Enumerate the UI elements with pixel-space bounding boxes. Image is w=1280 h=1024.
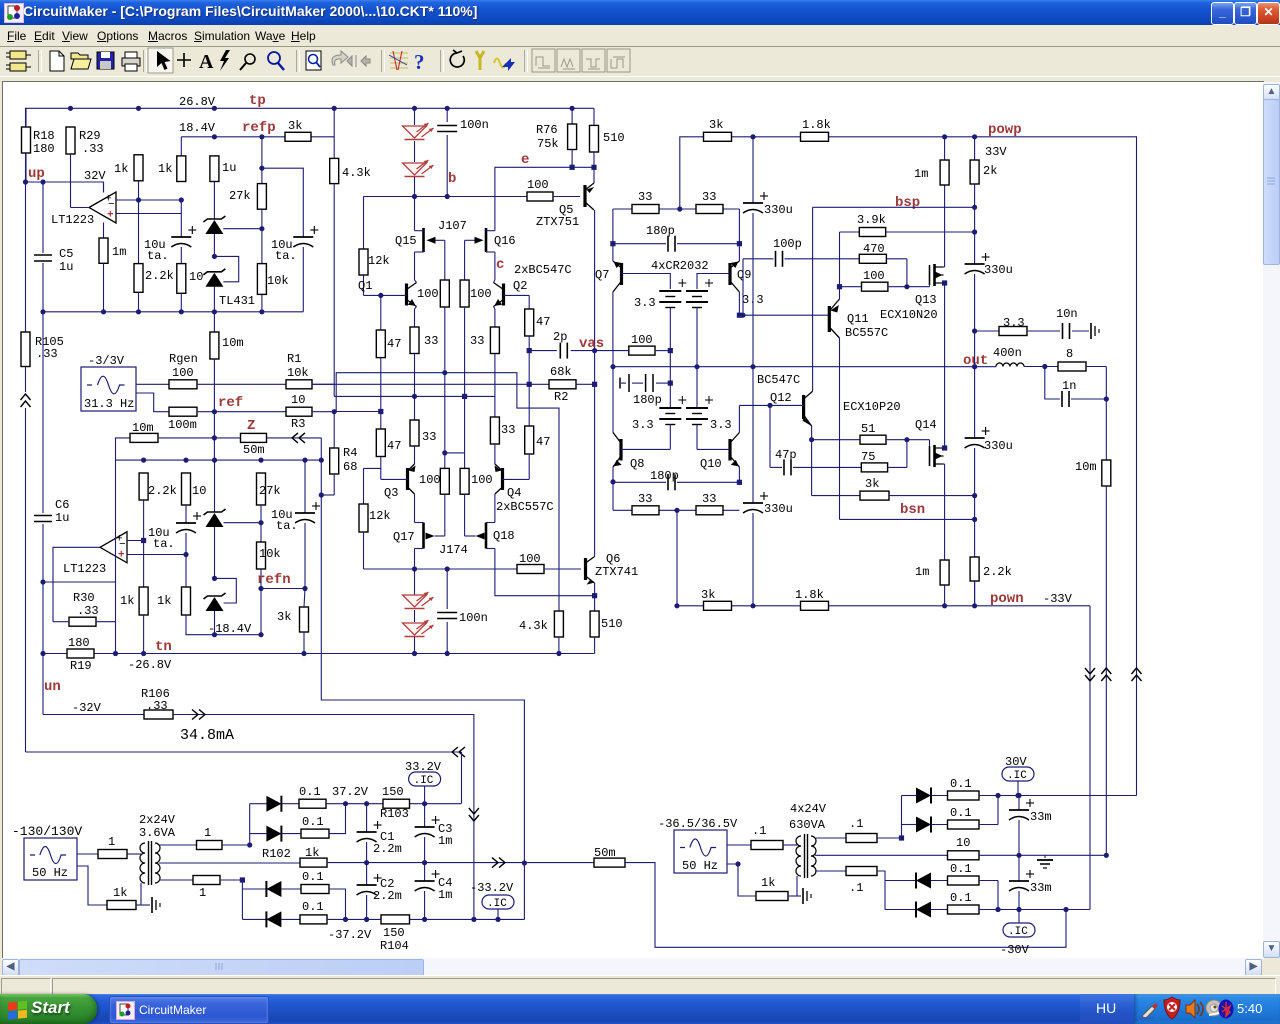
- svg-text:C5: C5: [59, 247, 73, 261]
- resistor 10 supply: [948, 851, 980, 860]
- wire 50m row: [524, 862, 594, 864]
- wire Q9 base: [697, 274, 730, 290]
- svg-text:Q14: Q14: [915, 418, 937, 432]
- wire 1u to zener: [213, 182, 215, 220]
- resistor 1.8k top: [801, 132, 829, 141]
- capacitor 330u 2: [965, 263, 985, 265]
- svg-text:100: 100: [471, 473, 493, 487]
- wire gate mid join: [445, 452, 465, 454]
- resistor 510 2: [590, 611, 599, 637]
- wire sec2 bottom: [815, 870, 846, 872]
- svg-text:100: 100: [519, 552, 541, 566]
- resistor 47 1: [380, 295, 382, 330]
- resistor 1m 2: [940, 560, 949, 585]
- transistor Q8: [619, 439, 622, 461]
- transistor Q4: [501, 468, 504, 490]
- ground right supply: [802, 888, 804, 904]
- svg-text:150: 150: [382, 785, 404, 799]
- resistor 0.1 b: [281, 833, 301, 835]
- svg-text:150: 150: [383, 926, 405, 940]
- pressed arrow button: [148, 48, 173, 73]
- svg-text:Q12: Q12: [770, 391, 792, 405]
- svg-text:Q6: Q6: [606, 552, 620, 566]
- resistor 0.1 g: [931, 880, 948, 882]
- rotate: [450, 50, 464, 67]
- capacitor C6 1u: [42, 312, 44, 513]
- svg-text:10m: 10m: [1075, 460, 1097, 474]
- wire top right rail: [680, 137, 1137, 796]
- wire Q12 emitter col: [811, 426, 813, 496]
- svg-text:+: +: [107, 210, 114, 222]
- svg-text:Q13: Q13: [915, 293, 937, 307]
- svg-text:33: 33: [638, 190, 652, 204]
- svg-text:33: 33: [702, 492, 716, 506]
- diode D7: [266, 881, 281, 897]
- wire sec2 top: [815, 837, 846, 839]
- wire vas right: [571, 350, 629, 352]
- svg-text:c: c: [496, 257, 504, 273]
- wire sec bottom right: [220, 880, 242, 919]
- capacitor 180p 2 series: [619, 378, 621, 389]
- wire Q2 emitter: [494, 307, 495, 310]
- svg-text:ta.: ta.: [147, 249, 169, 263]
- svg-text:Q8: Q8: [630, 457, 644, 471]
- svg-text:50 Hz: 50 Hz: [32, 866, 68, 880]
- svg-text:-36.5/36.5V: -36.5/36.5V: [658, 817, 738, 831]
- transistor Q9: [728, 263, 731, 285]
- svg-text:powp: powp: [988, 122, 1022, 138]
- wire src1 bottom: [77, 866, 107, 905]
- svg-text:.1: .1: [849, 881, 863, 895]
- wire to xfmr1: [127, 853, 141, 855]
- wire q7 emitter col: [612, 209, 614, 261]
- resistor 0.1 d: [281, 918, 300, 920]
- speaker2: [1206, 1000, 1222, 1016]
- capacitor 33m 2: [1018, 855, 1020, 881]
- wire 10k2 bottom: [260, 589, 262, 635]
- wire R1 R2 row: [312, 383, 549, 385]
- wire ref row: [197, 411, 286, 413]
- resistor 510: [590, 125, 599, 152]
- svg-text:2p: 2p: [553, 330, 567, 344]
- wire sec2 center: [815, 854, 948, 856]
- svg-text:50m: 50m: [594, 846, 616, 860]
- wire ind right: [1024, 366, 1058, 368]
- resistor R1 10k: [286, 380, 312, 389]
- wire bsp row: [813, 206, 975, 208]
- svg-text:e: e: [521, 152, 529, 168]
- capacitor C3 1m: [424, 804, 426, 827]
- wire ref row right: [334, 411, 381, 413]
- mosfet Q14 ECX10P20: [929, 446, 931, 466]
- resistor 1u: [210, 156, 219, 182]
- svg-text:1u: 1u: [55, 511, 69, 525]
- svg-text:-33.2V: -33.2V: [470, 881, 514, 895]
- capacitor 180p 1: [613, 243, 666, 245]
- resistor 12k 2: [363, 468, 365, 504]
- svg-text:0.1: 0.1: [302, 870, 324, 884]
- transformer T2 4x24V: [796, 836, 801, 876]
- zoom: [268, 52, 280, 64]
- capacitor 100p: [742, 259, 744, 315]
- wire un row: [42, 654, 44, 715]
- svg-text:Q10: Q10: [700, 457, 722, 471]
- chevron up connector: [25, 367, 27, 393]
- resistor 1k: [134, 155, 143, 181]
- resistor 3k: [285, 132, 311, 141]
- resistor 47 3: [380, 412, 382, 430]
- svg-text:100: 100: [527, 178, 549, 192]
- speaker: [1186, 1000, 1203, 1018]
- svg-text:J107: J107: [438, 219, 467, 233]
- wire refn stub: [321, 494, 334, 496]
- svg-text:10k: 10k: [267, 274, 289, 288]
- resistor 33 1: [410, 327, 419, 354]
- svg-text:3k: 3k: [277, 610, 291, 624]
- svg-text:27k: 27k: [259, 484, 281, 498]
- svg-text:Q3: Q3: [384, 486, 398, 500]
- source -36.5/36.5V: [674, 830, 727, 873]
- capacitor 10n: [1027, 330, 1060, 332]
- svg-text:1: 1: [108, 835, 115, 849]
- transistor Q18 J174: [485, 523, 488, 549]
- transistor Q5 ZTX751: [553, 196, 580, 198]
- svg-text:Rgen: Rgen: [169, 352, 198, 366]
- battery B3 3.3: [659, 407, 681, 409]
- svg-text:10: 10: [291, 393, 305, 407]
- resistor 68k R2: [549, 380, 576, 389]
- svg-text:4xCR2032: 4xCR2032: [651, 259, 709, 273]
- svg-text:4.3k: 4.3k: [342, 166, 371, 180]
- plus: [177, 53, 191, 67]
- wire bsp corner: [812, 207, 814, 391]
- svg-text:2xBC557C: 2xBC557C: [496, 500, 554, 514]
- wire src2 top: [727, 844, 751, 846]
- oval .IC 2: [482, 895, 514, 909]
- wire diode feed top: [249, 804, 251, 845]
- svg-text:27k: 27k: [229, 189, 251, 203]
- oval .IC 4: [1018, 910, 1020, 924]
- diode D9: [916, 788, 931, 804]
- resistor 1.8k bottom: [801, 601, 829, 610]
- svg-text:1.8k: 1.8k: [795, 588, 824, 602]
- svg-text:4.3k: 4.3k: [519, 619, 548, 633]
- resistor 0.1 a: [281, 803, 299, 805]
- print: [122, 58, 140, 66]
- battery B2 3.3: [686, 290, 708, 292]
- lightning: [220, 50, 230, 71]
- wire Q10 base: [697, 448, 730, 450]
- svg-text:R30: R30: [73, 591, 95, 605]
- wire tn rail: [43, 653, 595, 655]
- resistor 3.3: [975, 330, 999, 332]
- svg-text:33: 33: [501, 423, 515, 437]
- resistor 10m 2: [1102, 460, 1111, 486]
- svg-text:.IC: .IC: [487, 898, 507, 910]
- svg-text:.1: .1: [849, 817, 863, 831]
- resistor 1k l: [107, 901, 136, 910]
- transistor Q10: [728, 439, 731, 461]
- svg-text:1k: 1k: [157, 594, 171, 608]
- wire bat3 top: [669, 351, 671, 384]
- svg-text:1m: 1m: [915, 565, 929, 579]
- wire Q1 emitter: [415, 307, 417, 310]
- resistor 100 Q6 base: [517, 565, 544, 574]
- resistor 12k: [359, 249, 368, 275]
- wire opamp2 inputs: [127, 540, 144, 542]
- svg-text:33: 33: [422, 430, 436, 444]
- svg-text:refn: refn: [257, 572, 291, 588]
- resistor R105: [25, 182, 27, 332]
- svg-text:100: 100: [172, 366, 194, 380]
- capacitor 10u ta 2: [293, 236, 313, 238]
- wire pown drop: [1089, 606, 1091, 910]
- diode D11: [916, 873, 931, 889]
- svg-text:10k: 10k: [287, 366, 309, 380]
- svg-text:50 Hz: 50 Hz: [682, 859, 718, 873]
- svg-text:Q2: Q2: [513, 279, 527, 293]
- diode D8: [266, 911, 281, 927]
- wire merge top pair: [997, 796, 999, 825]
- resistor 2.2k 2: [139, 473, 148, 500]
- mosfet Q13 ECX10N20: [929, 265, 931, 285]
- led D1: [414, 108, 416, 125]
- svg-text:50m: 50m: [243, 443, 265, 457]
- wire R3 right: [312, 411, 334, 413]
- svg-text:R102: R102: [262, 847, 291, 861]
- svg-text:.33: .33: [146, 699, 168, 713]
- wire un left rail: [26, 751, 462, 753]
- resistor 33 2: [490, 327, 499, 354]
- svg-text:3.3: 3.3: [1003, 316, 1025, 330]
- resistor 150 R104: [381, 915, 410, 924]
- resistor R4 68: [330, 448, 339, 474]
- resistor R29: [66, 127, 75, 154]
- svg-text:-30V: -30V: [1000, 943, 1030, 957]
- svg-text:LT1223: LT1223: [63, 562, 106, 576]
- wire src1 top: [77, 853, 98, 855]
- resistor 3k bottom: [704, 601, 732, 610]
- svg-text:180p: 180p: [633, 393, 662, 407]
- capacitor 330u 3: [965, 437, 985, 439]
- svg-text:BC557C: BC557C: [845, 326, 888, 340]
- svg-text:J174: J174: [439, 543, 468, 557]
- capacitor 47p: [783, 459, 785, 475]
- wire to xfmr2: [783, 844, 797, 846]
- svg-text:33V: 33V: [985, 145, 1007, 159]
- diode zener TL431 lower: [205, 273, 223, 287]
- svg-text:1k: 1k: [114, 162, 128, 176]
- resistor 10k 2: [260, 523, 262, 542]
- wire Q11 emitter col: [839, 232, 841, 299]
- svg-text:51: 51: [861, 422, 875, 436]
- wire 10m to Z: [158, 437, 241, 439]
- svg-text:ta.: ta.: [275, 249, 297, 263]
- svg-text:Z: Z: [247, 418, 255, 434]
- wire b row: [364, 196, 528, 198]
- resistor 75: [861, 463, 887, 472]
- new: [50, 51, 64, 71]
- wire Q4 collector: [494, 494, 496, 523]
- svg-text:-3/3V: -3/3V: [88, 354, 125, 368]
- resistor 10: [180, 247, 182, 264]
- wire z-bias row: [336, 373, 559, 611]
- svg-text:3k: 3k: [701, 588, 715, 602]
- wire gate bias row: [334, 396, 495, 417]
- op-amp U1 LT1223: [89, 192, 116, 223]
- resistor 100 gate: [837, 284, 842, 289]
- wire Q1 collector: [415, 280, 417, 283]
- transistor Q1: [405, 284, 408, 306]
- resistor R19 180: [67, 649, 94, 658]
- wire sec top: [159, 844, 197, 846]
- svg-text:tn: tn: [155, 639, 172, 655]
- resistor 33 q10: [696, 506, 723, 515]
- wire Z drop column: [321, 438, 524, 920]
- led D2: [414, 141, 416, 162]
- svg-text:Q18: Q18: [493, 529, 515, 543]
- resistor 3k refn: [304, 589, 305, 608]
- led D3: [414, 569, 416, 595]
- wire R30 row: [53, 621, 69, 623]
- svg-text:180p: 180p: [650, 469, 679, 483]
- resistor 3k top: [704, 132, 732, 141]
- svg-text:-26.8V: -26.8V: [128, 658, 172, 672]
- resistor 51: [812, 439, 860, 441]
- wire up row: [26, 182, 104, 193]
- wire Q8 base: [621, 448, 670, 450]
- svg-text:R76: R76: [536, 123, 558, 137]
- wire e2 row: [495, 549, 595, 596]
- svg-text:3.3: 3.3: [710, 418, 732, 432]
- diode D5: [266, 796, 281, 812]
- resistor 8: [1058, 362, 1086, 371]
- svg-text:.IC: .IC: [414, 775, 434, 787]
- svg-text:1u: 1u: [59, 260, 73, 274]
- svg-text:refp: refp: [242, 120, 276, 136]
- wire sec center: [159, 862, 300, 864]
- svg-text:ref: ref: [218, 395, 243, 411]
- svg-text:75: 75: [861, 450, 875, 464]
- resistor 4.3k: [333, 108, 335, 158]
- wire merge bottom pair: [997, 881, 999, 910]
- svg-text:630VA: 630VA: [789, 818, 826, 832]
- svg-text:0.1: 0.1: [950, 806, 972, 820]
- svg-text:BC547C: BC547C: [757, 373, 800, 387]
- resistor 27k 2: [257, 473, 266, 505]
- svg-text:68: 68: [343, 460, 357, 474]
- wire 33 row top: [613, 208, 740, 210]
- svg-text:33: 33: [638, 492, 652, 506]
- svg-text:Q15: Q15: [395, 234, 417, 248]
- shield: [1164, 997, 1180, 1019]
- transistor Q16 J107: [485, 228, 488, 252]
- svg-text:+: +: [118, 549, 125, 561]
- resistor Z 50m: [241, 433, 267, 442]
- wave arrow: [494, 59, 506, 68]
- svg-text:180p: 180p: [646, 224, 675, 238]
- wire xfmr2 primary bottom: [796, 876, 798, 896]
- inductor 400n: [996, 363, 1024, 367]
- resistor 10k: [261, 229, 263, 264]
- source -130/130V: [24, 838, 77, 880]
- wire 50m right: [625, 863, 1066, 948]
- svg-text:0.1: 0.1: [302, 815, 324, 829]
- svg-text:Q16: Q16: [494, 234, 516, 248]
- svg-text:0.1: 0.1: [950, 862, 972, 876]
- resistor R102 1k: [300, 858, 327, 867]
- svg-text:47: 47: [536, 315, 550, 329]
- svg-text:3.3: 3.3: [632, 418, 654, 432]
- capacitor 33m 1: [1018, 796, 1020, 811]
- svg-text:Q7: Q7: [595, 268, 609, 282]
- svg-text:-33V: -33V: [1043, 592, 1073, 606]
- svg-text:47p: 47p: [775, 448, 797, 462]
- resistor 1 a: [98, 850, 127, 859]
- svg-text:31.3 Hz: 31.3 Hz: [84, 397, 134, 411]
- svg-text:0.1: 0.1: [950, 777, 972, 791]
- svg-text:470: 470: [863, 242, 885, 256]
- doc-zoom: [306, 51, 321, 70]
- svg-text:vas: vas: [579, 336, 604, 352]
- svg-text:0.1: 0.1: [299, 785, 321, 799]
- wire TL431 2 feedback: [215, 578, 237, 603]
- wire sec bottom: [159, 879, 193, 881]
- wire Q6 emitter: [594, 583, 596, 611]
- capacitor 2p: [559, 343, 561, 359]
- svg-text:bsp: bsp: [895, 195, 920, 211]
- resistor 100m: [169, 407, 197, 416]
- resistor 1 b: [197, 841, 223, 850]
- svg-text:0.1: 0.1: [302, 900, 324, 914]
- resistor 1m 1: [944, 137, 946, 160]
- svg-text:100p: 100p: [773, 237, 802, 251]
- wire zener1 row: [223, 228, 262, 230]
- resistor 27k: [261, 137, 263, 184]
- resistor 1k: [180, 137, 182, 156]
- transistor Q2: [502, 284, 505, 306]
- wire Z row: [116, 438, 131, 460]
- svg-text:1: 1: [199, 886, 206, 900]
- svg-text:-37.2V: -37.2V: [328, 928, 372, 942]
- svg-text:.33: .33: [82, 142, 104, 156]
- svg-text:R29: R29: [79, 129, 101, 143]
- svg-text:400n: 400n: [993, 346, 1022, 360]
- resistor 2.2k: [138, 200, 140, 264]
- resistor 3k 2: [812, 495, 860, 497]
- wire center col bottom: [676, 510, 678, 606]
- transistor Q7: [620, 263, 623, 285]
- battery B1 3.3: [659, 290, 681, 292]
- resistor 1k r: [756, 892, 788, 901]
- svg-text:33: 33: [702, 190, 716, 204]
- wire bottom mirror rail: [677, 605, 704, 607]
- wire b2 row: [364, 568, 518, 570]
- svg-text:100m: 100m: [168, 418, 197, 432]
- wire neg rail bottom: [327, 918, 524, 920]
- diode D6: [266, 826, 281, 842]
- resistor 47 0: [528, 295, 530, 309]
- wire q9 emitter col: [738, 209, 740, 261]
- svg-text:1k: 1k: [120, 594, 134, 608]
- svg-text:b: b: [448, 171, 456, 187]
- svg-text:R1: R1: [287, 352, 301, 366]
- wire source lower: [136, 393, 169, 412]
- resistor 100 s: [629, 346, 655, 355]
- svg-text:2x24V: 2x24V: [139, 813, 176, 827]
- svg-text:4x24V: 4x24V: [790, 802, 827, 816]
- resistor 100 a: [444, 240, 446, 280]
